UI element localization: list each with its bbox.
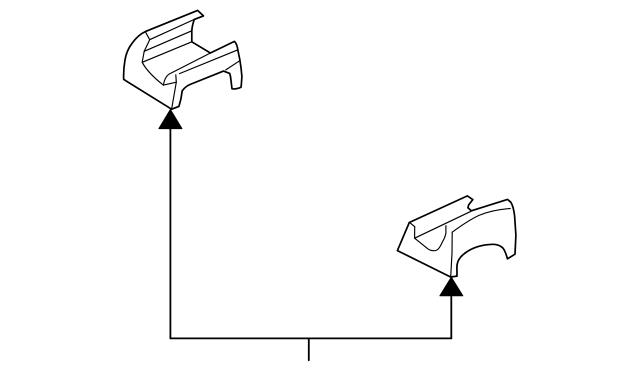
wall line i2 (144, 31, 192, 52)
slot left edge (414, 227, 416, 239)
floor front corner edge (172, 75, 177, 109)
wall line i1 (flange bottom) (150, 19, 195, 39)
bracket horizontal line (170, 337, 451, 339)
leader line 2 (right vertical) (450, 296, 452, 339)
left wall step edges (zigzag) (142, 32, 163, 86)
rail inner diagonal i2a (415, 211, 471, 238)
part 1 interior lines (142, 19, 240, 109)
fender crease line (452, 209, 510, 233)
wall line i3 to bend (142, 42, 192, 63)
arrowhead 2 (points to part 2) (440, 277, 463, 296)
bracket center stub (308, 338, 310, 360)
floor front edge iF (180, 50, 238, 74)
floor bottom shallow line (164, 82, 177, 85)
floor back edge i5 to valley (164, 53, 211, 85)
part 1 outline (left channel bracket) (124, 10, 242, 109)
leader line 1 (left vertical) (169, 129, 171, 339)
slot bottom and right edge (415, 226, 446, 251)
part 2 interior lines (411, 209, 511, 277)
rail mid line near right leg (226, 61, 240, 70)
arrowhead 1 (points to part 1) (159, 110, 182, 129)
front pillar line (451, 232, 453, 277)
part 2 outline (right quarter panel part) (397, 196, 516, 277)
top-left inner connector (411, 223, 415, 227)
